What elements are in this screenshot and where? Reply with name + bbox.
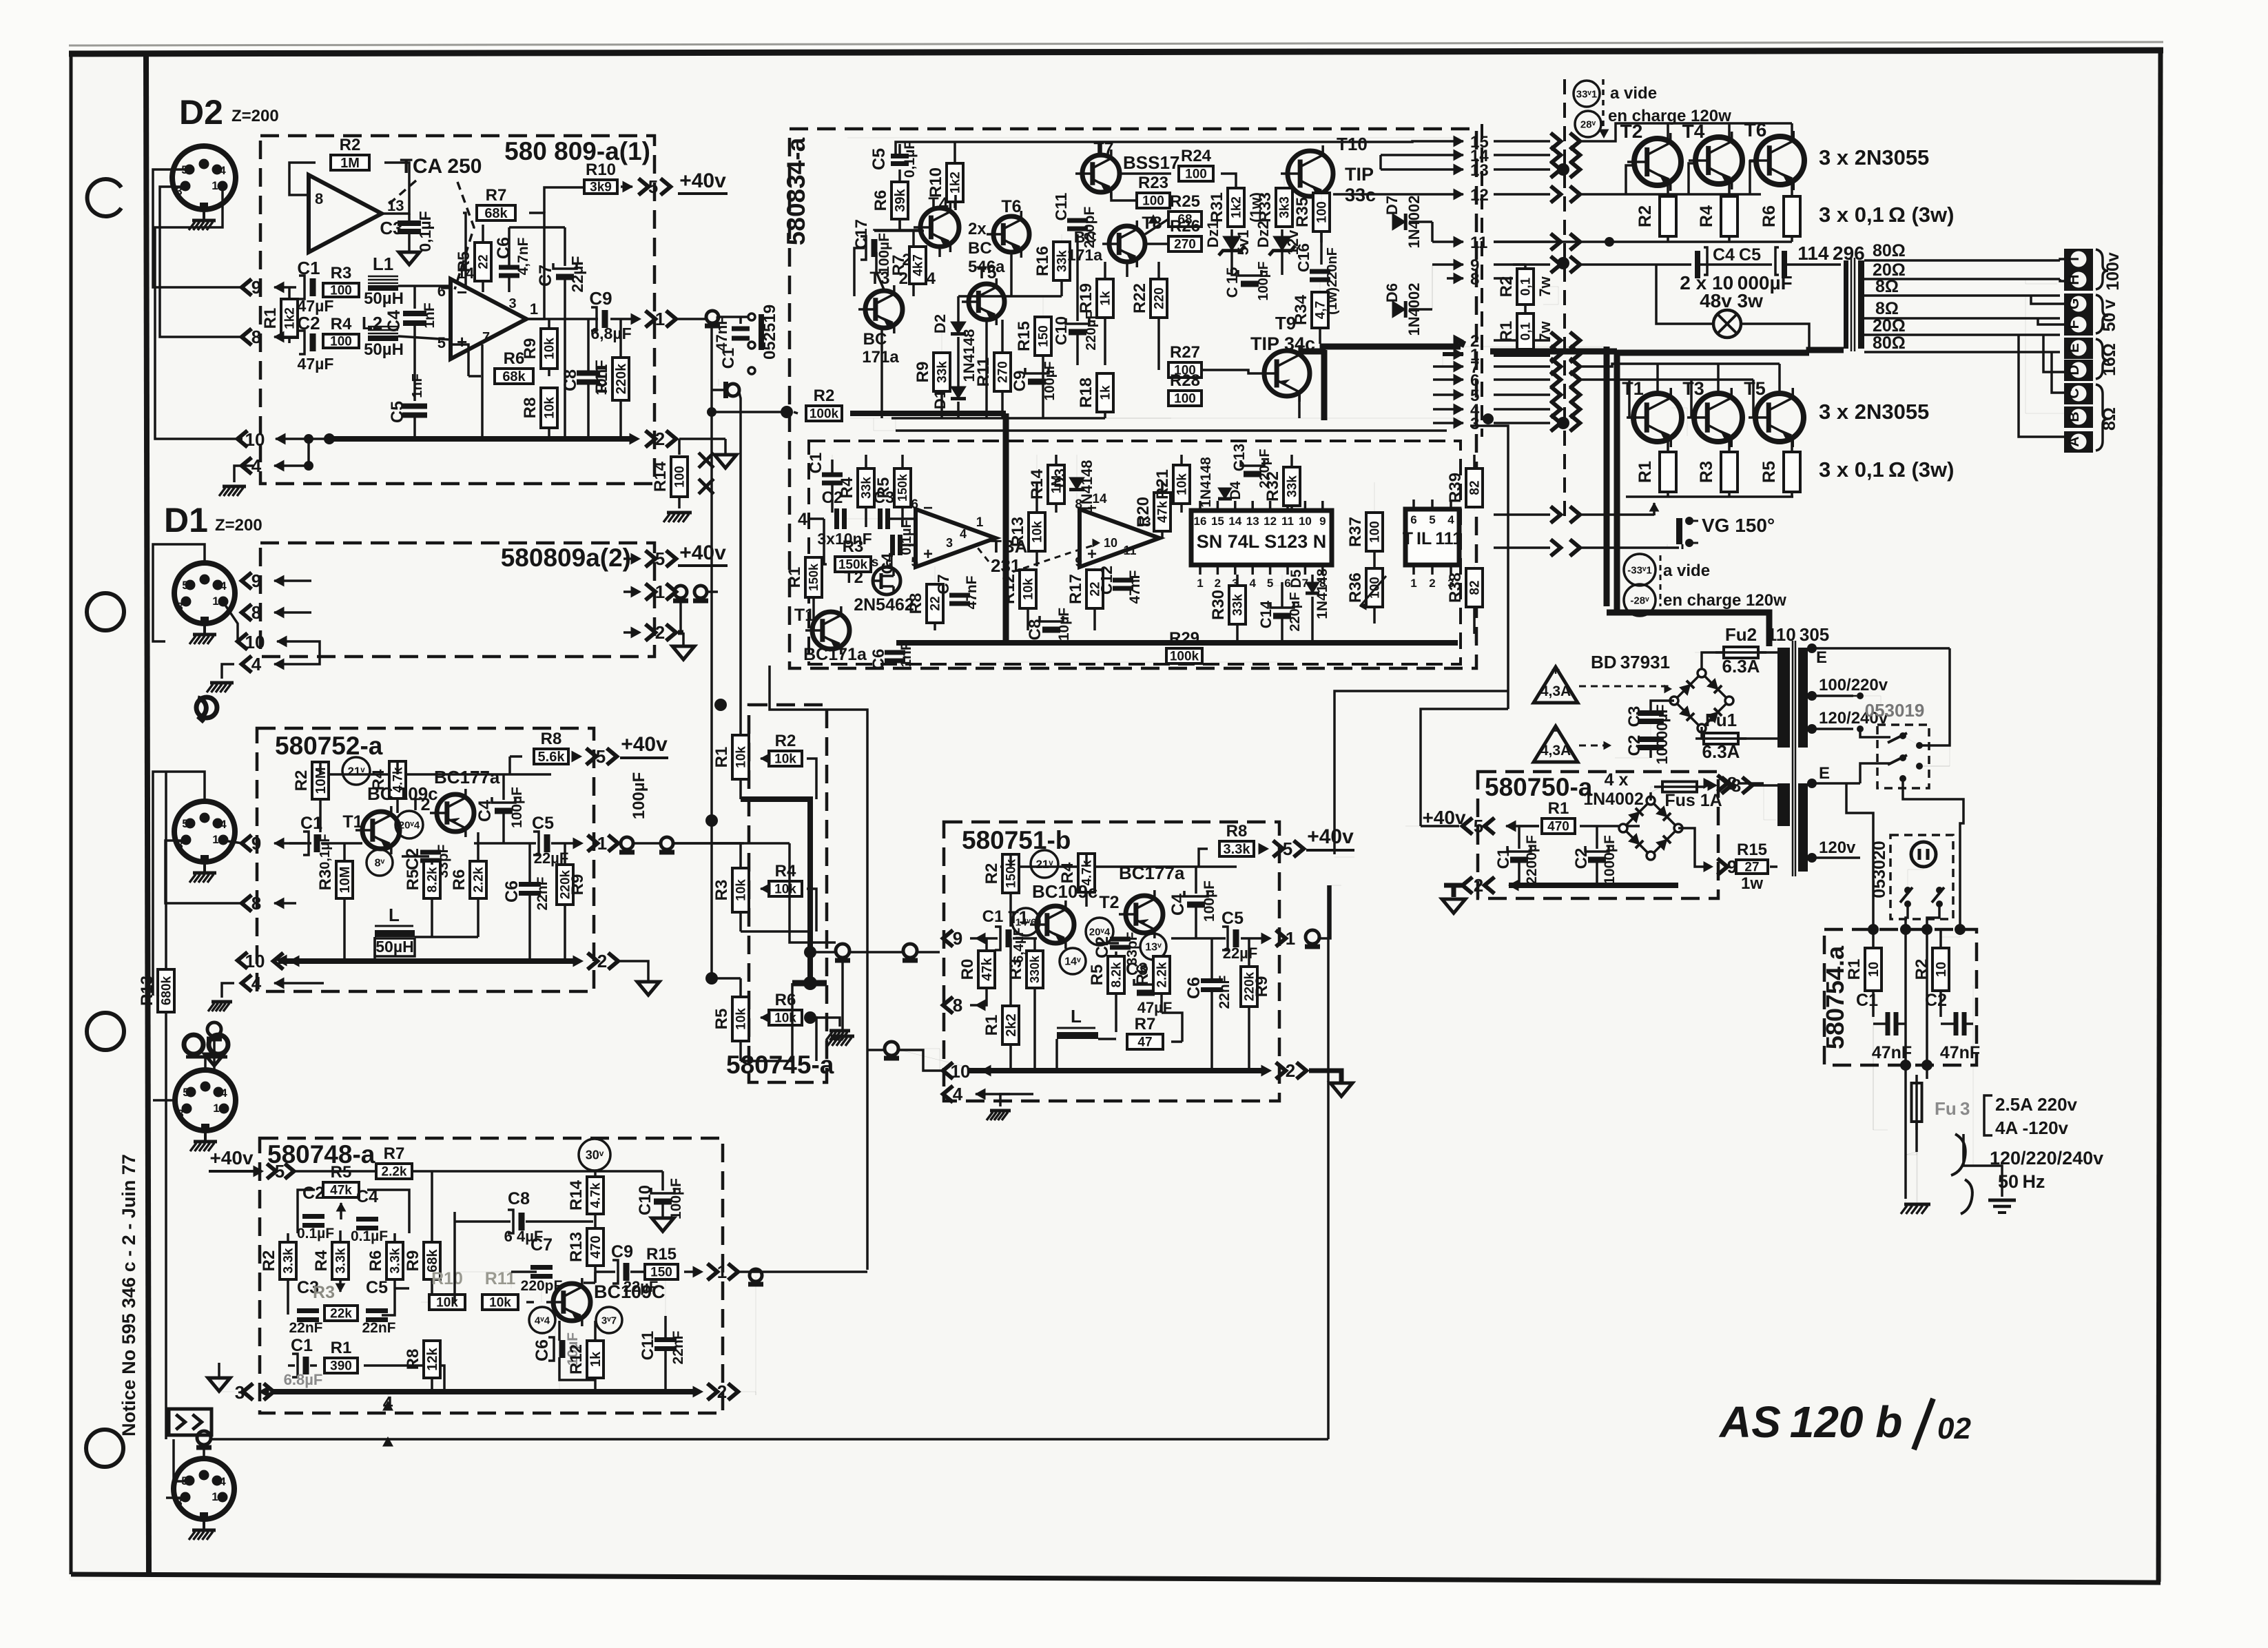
resistor R21 10k lower 834 (1173, 465, 1190, 504)
wire Dz2 to C15 (1281, 269, 1284, 275)
svg-text:1w: 1w (1741, 874, 1763, 893)
svg-text:1N4148: 1N4148 (1315, 568, 1330, 619)
svg-text:470: 470 (1547, 819, 1569, 834)
diode D1 834 (951, 387, 966, 399)
svg-text:2.2k: 2.2k (471, 867, 486, 892)
svg-text:R10: R10 (927, 167, 945, 198)
svg-text:R14: R14 (567, 1180, 586, 1211)
svg-text:10k: 10k (1030, 521, 1044, 543)
svg-text:R19: R19 (1077, 283, 1095, 313)
emitter resistor R1 output (1660, 452, 1676, 492)
voltage circle 14v6 (1012, 908, 1040, 936)
svg-text:220µF: 220µF (1288, 592, 1303, 631)
svg-text:TIP: TIP (1345, 164, 1374, 185)
wire C17 to T3 diagonal (876, 252, 884, 289)
svg-text:C3: C3 (1625, 706, 1644, 728)
svg-text:100k: 100k (1170, 649, 1199, 663)
svg-text:R35: R35 (1293, 197, 1312, 227)
svg-text:47k: 47k (1155, 501, 1170, 523)
svg-text:6: 6 (437, 282, 446, 300)
svg-text:C5: C5 (532, 814, 554, 833)
svg-text:C5: C5 (388, 401, 407, 423)
svg-text:50 Hz: 50 Hz (1998, 1171, 2045, 1192)
svg-text:D2: D2 (179, 93, 223, 132)
svg-text:8: 8 (315, 190, 323, 207)
capacitor C2 33pF 751 (1097, 942, 1119, 945)
svg-text:580834-a: 580834-a (782, 137, 810, 245)
svg-text:C2: C2 (822, 488, 843, 507)
svg-text:C3: C3 (874, 488, 895, 507)
resistor R22 220 834 (1151, 279, 1167, 318)
svg-text:8: 8 (251, 327, 261, 347)
capacitor C3 (408, 214, 411, 220)
svg-text:R11: R11 (592, 364, 611, 394)
long vertical return x1928 (1327, 885, 1330, 1439)
bridge wires psu (1651, 701, 1674, 713)
svg-text:150k: 150k (896, 473, 909, 502)
resistor R12 10k lower 834 (1020, 570, 1036, 608)
resistor R10 3k9 (584, 180, 617, 194)
svg-text:052519: 052519 (761, 305, 779, 360)
svg-text:120v: 120v (1819, 838, 1856, 857)
svg-text:10: 10 (1104, 536, 1117, 550)
svg-text:Dz1: Dz1 (1204, 220, 1221, 247)
capacitor C11 220pF 834 (1067, 218, 1088, 223)
svg-text:R7: R7 (1135, 1015, 1156, 1033)
svg-text:10k: 10k (734, 746, 748, 768)
wire R7 feed (912, 230, 915, 247)
svg-text:D2: D2 (931, 314, 949, 333)
wires R1R2 7w (1543, 287, 1558, 305)
svg-text:3ᵛ7: 3ᵛ7 (601, 1315, 617, 1326)
resistor R1 2k2 751 (1002, 1006, 1019, 1044)
svg-text:330k: 330k (1028, 955, 1042, 983)
resistor R4 4.7k 751 (1078, 854, 1095, 892)
svg-text:10k: 10k (734, 879, 748, 901)
svg-text:3: 3 (235, 1382, 245, 1403)
svg-text:5: 5 (596, 746, 606, 767)
svg-text:C8: C8 (1026, 619, 1044, 641)
svg-text:22nF: 22nF (535, 876, 550, 910)
svg-text:2: 2 (1286, 1060, 1295, 1081)
svg-text:22nF: 22nF (1217, 975, 1233, 1009)
svg-text:T9: T9 (1275, 313, 1296, 333)
bus R2 834 (781, 406, 793, 418)
svg-text:1k2: 1k2 (282, 307, 297, 329)
resistor R7 2.2k 748 (376, 1164, 412, 1179)
svg-text:82: 82 (1467, 580, 1482, 595)
svg-text:47k: 47k (980, 957, 995, 980)
svg-text:21ᵛ: 21ᵛ (347, 765, 365, 778)
voltage circle 8v (367, 849, 393, 876)
svg-text:8: 8 (1075, 497, 1082, 512)
svg-text:11: 11 (1281, 515, 1294, 528)
capacitor C2 33pF 752 (402, 855, 429, 858)
svg-text:22: 22 (928, 596, 942, 610)
svg-text:8Ω: 8Ω (1875, 299, 1899, 318)
resistor R11 10k 748 (482, 1295, 518, 1310)
upper base rail pin12 (1582, 193, 1761, 196)
svg-text:R15: R15 (1737, 841, 1767, 859)
svg-text:4: 4 (219, 1475, 226, 1488)
svg-text:5: 5 (437, 334, 446, 351)
svg-text:22µF: 22µF (568, 256, 586, 293)
resistor R4 33k lower 834 (858, 468, 874, 507)
thick bus to transformer bottom (1617, 350, 1809, 356)
phono connector frame wires (153, 772, 205, 996)
svg-text:C5: C5 (869, 148, 889, 170)
svg-text:30ᵛ: 30ᵛ (586, 1148, 604, 1162)
svg-text:C6: C6 (1184, 977, 1204, 999)
svg-text:5.6k: 5.6k (538, 750, 566, 765)
svg-text:4: 4 (220, 1086, 227, 1100)
svg-text:R5: R5 (1088, 965, 1106, 986)
resistor R34 4,7 834 (1312, 292, 1328, 328)
svg-text:R8: R8 (404, 1349, 422, 1370)
svg-text:BC177a: BC177a (434, 767, 500, 787)
svg-text:R16: R16 (1033, 246, 1052, 276)
connector dashed line left (1481, 124, 1483, 437)
thick wire to mains transformer (1607, 612, 1769, 646)
svg-text:100µF: 100µF (630, 772, 648, 820)
svg-text:2: 2 (201, 812, 207, 825)
svg-text:5v1: 5v1 (1235, 230, 1252, 256)
svg-text:+40v: +40v (621, 733, 668, 756)
svg-text:L: L (1071, 1006, 1082, 1027)
svg-text:5: 5 (275, 1161, 285, 1182)
capacitor C4 100uF 751 (1184, 891, 1208, 896)
svg-text:5: 5 (648, 176, 658, 197)
wires below 754 (1873, 1024, 1874, 1033)
pin 1 module2 (623, 590, 635, 593)
svg-text:10k: 10k (734, 1008, 748, 1030)
input pin 8 d1 (242, 604, 251, 621)
input pin 8 (242, 329, 251, 345)
resistor R8 22 lower 834 (927, 584, 943, 623)
svg-text:1: 1 (1286, 928, 1295, 949)
emitter resistor R3 output (1721, 452, 1738, 492)
svg-text:R2: R2 (775, 732, 796, 750)
svg-text:D4: D4 (1228, 481, 1244, 499)
svg-text:+40v: +40v (679, 169, 726, 192)
svg-text:R6: R6 (1760, 205, 1779, 227)
mic arrows box (169, 1409, 212, 1435)
svg-text:47k: 47k (330, 1183, 352, 1197)
switch contacts 053020 (1904, 887, 1911, 894)
svg-text:33ᵛ1: 33ᵛ1 (1576, 88, 1597, 100)
svg-text:1: 1 (212, 595, 218, 608)
resistor R15 150 748 (645, 1264, 678, 1279)
svg-text:R10: R10 (431, 1269, 463, 1288)
input pin 4 751 (943, 1086, 953, 1102)
tape recorder icon (184, 1035, 203, 1054)
wire jack down (710, 325, 713, 821)
svg-text:0,1µF: 0,1µF (318, 834, 333, 869)
wire R27 to T9 base (1202, 370, 1257, 373)
mains transformer lower winding (1798, 783, 1808, 872)
resistor R2 150k 751 (1002, 854, 1019, 893)
svg-text:10k: 10k (774, 882, 796, 896)
svg-text:BC: BC (968, 239, 992, 258)
module box 580748-a (260, 1138, 723, 1413)
svg-text:1: 1 (212, 1490, 218, 1503)
op-amp A TBA231 (916, 509, 996, 567)
svg-text:4,7nF: 4,7nF (515, 237, 531, 275)
fuse Fus 1A (1662, 782, 1697, 792)
svg-text:R7: R7 (889, 255, 908, 276)
svg-text:C4: C4 (475, 800, 495, 822)
wire T8 emitter to R19 (1126, 262, 1128, 277)
svg-text:C2: C2 (302, 1184, 324, 1203)
svg-text:R2: R2 (292, 770, 311, 792)
resistor R2 10k 745 (769, 751, 802, 766)
svg-text:6,4µF: 6,4µF (1011, 927, 1027, 963)
svg-text:R3: R3 (1697, 461, 1716, 483)
warning triangle -4.3A (1534, 726, 1578, 762)
resistor R15 27 1w (1736, 860, 1768, 874)
svg-text:580745-a: 580745-a (726, 1051, 834, 1079)
svg-text:C1: C1 (1494, 848, 1513, 869)
svg-text:BC109c: BC109c (1032, 881, 1097, 902)
resistor R10 10k 748 (429, 1295, 465, 1310)
svg-text:150k: 150k (807, 563, 821, 591)
output 1 748 (684, 1270, 696, 1273)
svg-text:100µF: 100µF (668, 1178, 684, 1219)
capacitor C7 22uF (553, 263, 577, 269)
svg-text:R1: R1 (1548, 799, 1569, 818)
svg-text:R25: R25 (1170, 192, 1200, 211)
svg-text:H: H (2066, 274, 2082, 285)
svg-text:R0: R0 (958, 959, 977, 980)
svg-text:T1: T1 (342, 812, 362, 832)
resistor R37 100 (1366, 513, 1383, 551)
bridge output wires 750 (1678, 828, 1713, 867)
resistor R28 100 834 (1168, 391, 1202, 406)
svg-text:100: 100 (1142, 194, 1164, 208)
svg-text:C14: C14 (1257, 600, 1275, 628)
svg-text:100k: 100k (810, 406, 839, 421)
svg-text:D: D (2066, 364, 2082, 375)
capacitor C5 22uF out 751 (1171, 937, 1226, 940)
secondary rail 834 y607 (891, 417, 1105, 420)
wire D1 pin1 diagonal (223, 602, 238, 641)
resistor R8 10k (541, 388, 557, 428)
svg-text:R30: R30 (1209, 590, 1228, 620)
svg-text:T1: T1 (794, 606, 814, 625)
svg-text:C9: C9 (589, 288, 612, 309)
svg-text:R8: R8 (907, 593, 925, 615)
svg-text:R4: R4 (775, 862, 796, 880)
svg-text:48v 3w: 48v 3w (1700, 290, 1763, 311)
thick vertical x2347 (1614, 351, 1620, 612)
svg-text:100: 100 (1185, 167, 1207, 181)
svg-text:C1: C1 (297, 258, 320, 278)
capacitor C3 10000uF (1638, 710, 1664, 716)
svg-text:50µH: 50µH (364, 289, 404, 308)
svg-text:R9: R9 (1252, 976, 1271, 998)
capacitor C11 22nF 748 (654, 1337, 677, 1342)
capacitor C6 4,7nF (499, 265, 519, 270)
resistor R8 5.6k 752 (534, 749, 568, 764)
module box 580751-b (944, 822, 1279, 1101)
capacitor C16 220nF 834 (1310, 269, 1330, 274)
svg-text:10k: 10k (774, 752, 796, 766)
voltage circle -28v (1624, 584, 1656, 616)
wire T6 emitter to row430 (1010, 252, 1013, 296)
bottom bus 748 (271, 1389, 696, 1394)
svg-text:+40v: +40v (679, 542, 726, 564)
cut marks X (699, 453, 714, 468)
capacitor C7 220pF 748 (530, 1265, 553, 1270)
svg-text:T3: T3 (1682, 378, 1704, 399)
resistor R5 10k 745 (732, 997, 749, 1041)
svg-text:4.7k: 4.7k (588, 1182, 603, 1208)
capacitor C14 220uF lower (1270, 602, 1294, 608)
chassis ground mains (1905, 1199, 1906, 1202)
svg-text:10: 10 (245, 429, 265, 450)
output pin 1 751 (1261, 933, 1271, 943)
input pin 10 d1 (238, 633, 247, 650)
module box 580834-a (790, 129, 1476, 668)
svg-text:R8: R8 (541, 730, 562, 748)
svg-text:82: 82 (1467, 480, 1482, 495)
upper collector rail (1582, 123, 1792, 141)
svg-text:R18: R18 (1077, 378, 1095, 408)
capacitor C1 47nF connector (739, 317, 742, 324)
svg-text:R17: R17 (1066, 574, 1085, 604)
svg-text:1: 1 (212, 179, 218, 192)
svg-text:R1: R1 (785, 567, 804, 588)
svg-text:4: 4 (219, 164, 226, 177)
wire T4 T6 link (874, 230, 920, 231)
svg-text:2: 2 (655, 622, 665, 643)
voltage circle 3v7 (596, 1307, 622, 1333)
capacitor C7 47nF lower 834 (949, 593, 970, 598)
emitter wires upper (1667, 185, 1669, 196)
svg-text:R37: R37 (1346, 517, 1365, 547)
svg-text:0,1: 0,1 (1518, 322, 1533, 340)
svg-text:11: 11 (1123, 544, 1136, 557)
svg-text:0.1µF: 0.1µF (297, 1226, 334, 1242)
svg-text:R14: R14 (651, 461, 670, 492)
svg-text:2x: 2x (968, 220, 987, 238)
svg-text:C1: C1 (1856, 991, 1878, 1010)
svg-text:21ᵛ: 21ᵛ (1035, 858, 1053, 871)
terminal braces and labels (2096, 249, 2108, 289)
capacitor C5 834 (891, 154, 909, 158)
wire C8 left branch (455, 1222, 511, 1272)
wire left mains loop (1873, 1017, 1888, 1130)
upper collector stubs (1667, 123, 1669, 139)
IC TIL111 (1405, 509, 1459, 565)
svg-text:100: 100 (330, 334, 352, 349)
wire Dz1 to C15 (1232, 269, 1237, 275)
svg-text:C11: C11 (1052, 192, 1070, 220)
svg-text:C9: C9 (1011, 371, 1029, 392)
wire T7 emitter to R23 (1111, 192, 1135, 200)
svg-text:BD 37931: BD 37931 (1591, 652, 1670, 672)
wires across connector (1494, 140, 1550, 143)
wire T7 to R24 (1120, 172, 1171, 175)
second jack 052519 (712, 389, 725, 391)
svg-text:3: 3 (508, 296, 516, 311)
resistor R32 33k (1284, 467, 1300, 506)
svg-text:R2: R2 (340, 136, 361, 154)
svg-text:47µF: 47µF (298, 355, 334, 373)
svg-text:3.3k: 3.3k (1224, 842, 1251, 857)
switch wiring 053019 (1860, 729, 1890, 737)
resistor R14 1M lower 834 (1048, 465, 1064, 504)
jack 748 out (750, 1269, 762, 1281)
svg-text:4,3A: 4,3A (1540, 683, 1571, 699)
resistor R6 3.3k 748 (386, 1242, 403, 1279)
node diamonds column x2269 (1557, 163, 1569, 176)
svg-text:10µF: 10µF (1056, 608, 1072, 641)
svg-text:R13: R13 (138, 976, 156, 1006)
long vertical wire x1259 (770, 666, 867, 1270)
svg-text:R7: R7 (486, 186, 507, 205)
svg-text:50µH: 50µH (364, 340, 404, 359)
svg-text:R9: R9 (404, 1250, 422, 1272)
svg-text:3: 3 (176, 600, 183, 613)
wire phono pin to 9 (223, 841, 243, 843)
node bus joint 745 (803, 976, 817, 990)
arrow R5 pot (336, 1203, 345, 1211)
svg-text:R1: R1 (712, 747, 731, 768)
long wire from 752 outputs (744, 843, 790, 844)
svg-text:R23: R23 (1138, 174, 1168, 192)
svg-text:1k: 1k (1098, 291, 1113, 306)
transformer E taps upper (1807, 643, 1817, 653)
svg-text:100: 100 (1368, 521, 1382, 543)
svg-text:171a: 171a (1067, 246, 1102, 264)
svg-text:580751-b: 580751-b (962, 826, 1071, 854)
capacitor C2 748 (302, 1214, 324, 1219)
svg-text:2: 2 (202, 1080, 208, 1093)
svg-text:C1: C1 (300, 814, 322, 833)
wire row 430 (958, 295, 1062, 298)
resistor R1 10 754 (1865, 948, 1882, 991)
input pin 10 (238, 431, 247, 447)
emitter resistor R6 output (1784, 196, 1800, 236)
svg-text:6: 6 (1410, 513, 1416, 526)
svg-text:+: + (923, 545, 933, 564)
svg-text:R8: R8 (521, 398, 539, 419)
svg-text:6.8µF: 6.8µF (284, 1371, 323, 1388)
input pin 4 (242, 457, 251, 474)
svg-text:D1: D1 (931, 390, 949, 409)
svg-text:C9: C9 (611, 1242, 633, 1261)
resistor R9 220k 752 (557, 865, 573, 905)
svg-text:C8: C8 (508, 1189, 530, 1208)
capacitor C4 2x10000uF (1695, 251, 1700, 278)
svg-text:12k: 12k (425, 1347, 440, 1370)
svg-text:2: 2 (655, 429, 665, 449)
svg-text:47: 47 (1137, 1035, 1152, 1049)
ground triangle tape (213, 1050, 216, 1054)
resistor R9 220k 751 (1241, 967, 1257, 1007)
module box 580809-a(1) (260, 136, 654, 484)
wire R35 to row9 (1320, 231, 1323, 265)
svg-text:R26: R26 (1170, 217, 1200, 236)
resistor R13 10k lower 834 (1029, 513, 1045, 551)
svg-text:22nF: 22nF (289, 1320, 322, 1336)
capacitor C2 10000uF psu (1638, 737, 1664, 742)
svg-text:5: 5 (182, 817, 188, 830)
svg-text:C12: C12 (1097, 566, 1115, 595)
emitter resistor R2 output (1660, 196, 1676, 236)
jacks after 752 pin1 (621, 837, 633, 849)
